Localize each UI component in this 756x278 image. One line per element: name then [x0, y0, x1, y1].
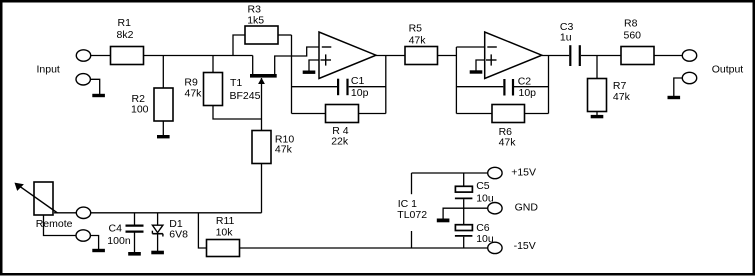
wire op-amp U2 output to C3 — [542, 55, 569, 57]
wire R2 to ground — [162, 121, 164, 136]
svg-text:10u: 10u — [476, 233, 494, 245]
wire T1 drain lead — [252, 56, 254, 75]
wire remote line — [91, 212, 262, 214]
capacitor C2 — [504, 79, 513, 96]
svg-text:+15V: +15V — [511, 166, 536, 178]
potentiometer wiper arrow — [15, 183, 58, 213]
op-amp U1 plus sign — [321, 59, 332, 61]
svg-text:10k: 10k — [216, 227, 234, 239]
ground (R2) — [157, 135, 170, 138]
svg-text:100n: 100n — [107, 235, 131, 247]
wire R11 to -15V rail — [240, 247, 489, 249]
ground (R7) — [591, 115, 604, 118]
svg-text:47k: 47k — [499, 137, 517, 149]
svg-text:TL072: TL072 — [397, 209, 427, 221]
svg-text:22k: 22k — [331, 136, 349, 148]
svg-text:47k: 47k — [613, 91, 631, 103]
output jack 2 — [682, 72, 696, 83]
resistor R10 — [252, 131, 271, 164]
wire output node 1 vertical — [385, 56, 387, 114]
svg-text:47k: 47k — [409, 35, 427, 47]
svg-text:R8: R8 — [624, 18, 638, 30]
ground (D1) — [151, 251, 164, 255]
wire +15V rail — [412, 172, 489, 174]
input jack 1 — [76, 50, 90, 61]
wire pot wiper to remote jack 1 — [54, 212, 76, 214]
resistor R1 — [111, 47, 144, 65]
svg-text:C5: C5 — [476, 180, 490, 192]
svg-text:1k5: 1k5 — [247, 15, 264, 27]
wire C3 to R8 — [581, 55, 621, 57]
svg-text:R5: R5 — [409, 23, 423, 35]
wire T1 source to op-amp inverting input — [275, 47, 319, 74]
wire D1 bottom lead — [157, 234, 159, 251]
wire node A to R2 — [162, 56, 164, 89]
output jack 1 — [682, 50, 696, 61]
zener diode D1 — [152, 225, 163, 236]
svg-text:-15V: -15V — [514, 240, 536, 252]
ground (output jack 2) — [668, 96, 681, 99]
wire T1 gate lead — [261, 78, 263, 131]
svg-text:100: 100 — [131, 104, 149, 116]
wire node 2 to C2 — [456, 86, 503, 88]
resistor R5 — [405, 47, 438, 65]
wire output jack 2 to ground — [674, 78, 683, 96]
wire IC1 power stub bottom — [411, 231, 413, 248]
wire IC1 power stub top — [411, 173, 413, 194]
input jack 2 — [76, 74, 90, 85]
ground (GND terminal) — [437, 219, 450, 223]
wire R3 right lead — [278, 34, 292, 36]
wire op-amp U1 output — [376, 55, 405, 57]
wire output node 2 vertical — [548, 56, 550, 114]
wire node 2 to R6 — [456, 113, 492, 115]
wire R10 bottom to remote line — [261, 164, 263, 213]
svg-text:10u: 10u — [476, 193, 494, 205]
potentiometer (remote control) box — [34, 182, 53, 215]
wire remote line to R11 — [198, 213, 206, 248]
svg-text:47k: 47k — [275, 144, 293, 156]
wire node to R9 — [212, 56, 214, 73]
resistor R4 — [326, 105, 359, 123]
wire C4 bottom lead — [134, 233, 136, 253]
svg-text:Output: Output — [712, 64, 744, 76]
ground (remote jack 2) — [92, 249, 105, 252]
wire input to R1 — [91, 55, 111, 57]
svg-text:47k: 47k — [185, 87, 203, 99]
remote jack 2 — [76, 230, 90, 241]
resistor R7 — [588, 79, 607, 112]
capacitor C6 (electrolytic) — [455, 225, 473, 236]
+15V terminal — [488, 167, 502, 178]
wire R3 left lead — [233, 35, 245, 56]
wire pot bottom to remote jack 2 — [44, 215, 77, 236]
wire R8 to output jack — [654, 55, 682, 57]
wire C1 to output node — [349, 86, 386, 88]
transistor T1 gate arrow — [258, 78, 265, 84]
svg-text:6V8: 6V8 — [169, 229, 188, 241]
svg-text:C2: C2 — [518, 76, 532, 88]
capacitor C3 — [570, 45, 580, 66]
resistor R8 — [621, 47, 654, 65]
wire R4 to output node — [359, 113, 386, 115]
wire node C to R7 — [596, 56, 598, 79]
svg-text:BF245: BF245 — [230, 90, 261, 102]
resistor R3 — [245, 26, 278, 44]
ground (C4) — [128, 252, 141, 256]
svg-text:560: 560 — [624, 30, 642, 42]
wire remote jack 2 to ground — [90, 236, 98, 250]
svg-text:C4: C4 — [109, 223, 123, 235]
wire R5 to node 2 — [438, 55, 457, 57]
op-amp U2 plus sign — [486, 59, 497, 61]
wire R7 to ground — [596, 112, 598, 116]
wire R9 bottom to gate line — [213, 106, 262, 120]
wire node B to C1 — [292, 86, 338, 88]
remote jack 1 — [76, 207, 90, 218]
svg-text:R11: R11 — [216, 215, 235, 227]
op-amp U2 minus sign — [487, 46, 497, 48]
svg-text:T1: T1 — [230, 77, 242, 89]
op-amp U1 — [319, 32, 376, 79]
node B vertical wire — [291, 35, 293, 114]
ground (op-amp U2 +) — [470, 70, 483, 73]
resistor R2 — [154, 88, 173, 121]
resistor R9 — [204, 73, 223, 106]
wire node B to R4 — [292, 113, 326, 115]
svg-text:1u: 1u — [560, 31, 572, 43]
-15V terminal — [488, 242, 502, 253]
capacitor C1 — [338, 79, 347, 96]
wire main line R1 to T1 drain — [144, 55, 253, 57]
capacitor C5 (electrolytic) — [455, 186, 473, 198]
wire op-amp U2 + input to ground — [476, 60, 485, 71]
svg-text:Input: Input — [37, 64, 60, 76]
resistor R6 — [492, 105, 525, 123]
svg-text:Remote: Remote — [36, 218, 73, 230]
svg-text:GND: GND — [515, 202, 539, 214]
wire C5 top lead — [463, 173, 465, 186]
resistor R11 — [207, 240, 240, 257]
svg-text:8k2: 8k2 — [117, 29, 134, 41]
svg-text:C1: C1 — [351, 75, 365, 87]
capacitor C4 — [126, 226, 144, 232]
GND terminal — [488, 203, 502, 214]
wire D1 top lead — [157, 213, 159, 225]
ground (op-amp U1 +) — [303, 71, 316, 74]
wire node 2 to op-amp U2 inverting input — [456, 46, 484, 48]
node 2 vertical wire — [455, 47, 457, 114]
wire op-amp U1 + input to ground — [309, 60, 319, 71]
svg-text:10p: 10p — [519, 87, 537, 99]
ground (input jack) — [92, 94, 105, 97]
op-amp U1 minus sign — [322, 46, 332, 48]
wire C4 top lead — [134, 213, 136, 225]
svg-text:10p: 10p — [351, 87, 369, 99]
wire GND line — [443, 208, 488, 218]
transistor Q1 channel bar (T1 BF245) — [250, 74, 277, 78]
svg-text:R1: R1 — [118, 17, 132, 29]
wire C6 bottom lead — [463, 237, 465, 248]
wire C5 bottom to GND line — [463, 199, 465, 225]
wire C2 to output node 2 — [514, 86, 549, 88]
op-amp U2 — [485, 32, 542, 79]
wire input jack 2 to ground — [90, 79, 99, 94]
wire R6 to output node 2 — [525, 113, 549, 115]
